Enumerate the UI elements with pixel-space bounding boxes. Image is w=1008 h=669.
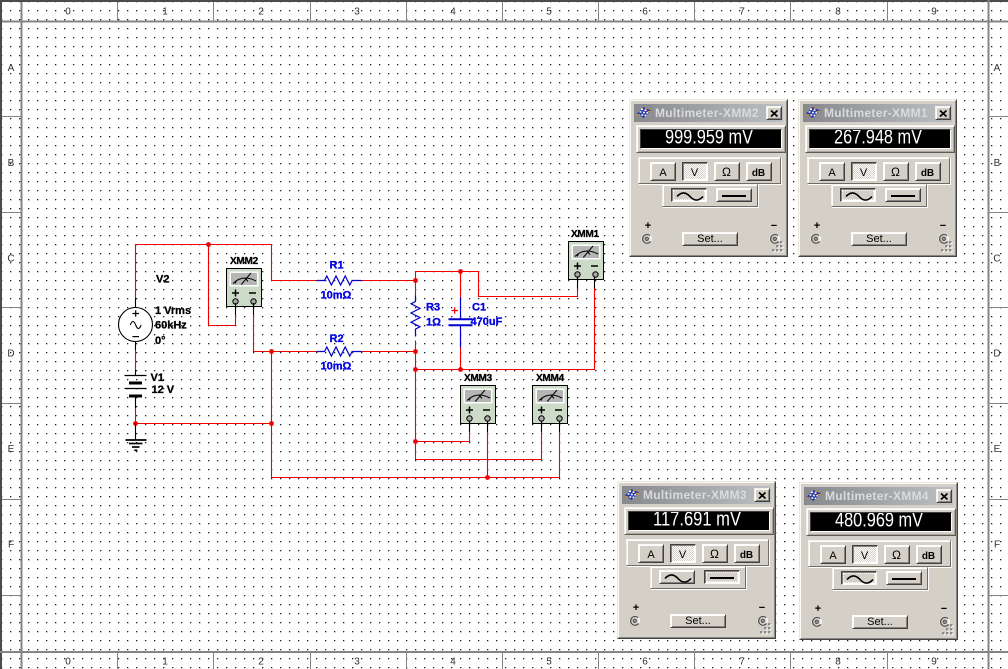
svg-text:2: 2: [258, 657, 264, 668]
multimeter window XMM2: [629, 99, 788, 257]
svg-text:1: 1: [162, 7, 168, 18]
svg-text:R1: R1: [330, 260, 344, 272]
svg-text:C: C: [7, 254, 14, 265]
wire R3 red stubs: [415, 281, 417, 352]
wire C1 top lead red part: [460, 272, 462, 298]
svg-text:R2: R2: [330, 333, 344, 345]
multimeter instrument icon XMM3: [461, 373, 496, 424]
battery V1: [125, 370, 147, 408]
svg-text:XMM3: XMM3: [464, 373, 493, 384]
capacitor C1 polarity plus: [452, 307, 459, 314]
svg-text:1Ω: 1Ω: [426, 317, 441, 329]
wire XMM3 minus down to bottom rail: [487, 432, 489, 478]
pin stubs XMM3: [470, 421, 488, 433]
resize grip: [759, 622, 772, 635]
wire R3 top junction up and right to C1 top: [416, 272, 578, 297]
wire mid rail to XMM1 minus: [416, 289, 595, 370]
wire R2 right to junction: [362, 352, 416, 371]
wire C1 bottom red: [460, 348, 462, 370]
mode buttons: [807, 157, 950, 184]
wire V1 bottom to ground junction: [135, 408, 137, 424]
svg-text:A: A: [8, 63, 15, 74]
wave buttons: [831, 184, 927, 207]
multimeter instrument icon XMM4: [533, 373, 568, 424]
svg-text:4: 4: [450, 657, 456, 668]
svg-text:XMM1: XMM1: [571, 229, 600, 240]
junction (208,244): [206, 242, 211, 247]
wave buttons: [650, 566, 746, 589]
title bar: [634, 104, 783, 122]
svg-text:470uF: 470uF: [471, 316, 503, 328]
resistor R1: [317, 276, 362, 285]
svg-text:3: 3: [354, 7, 360, 18]
multimeter window XMM4: [799, 482, 958, 640]
multimeter window XMM1: [798, 99, 957, 257]
capacitor C1: [449, 298, 473, 348]
junction (271,423): [269, 421, 274, 426]
Set button: [851, 232, 907, 246]
svg-text:480.969 mV: 480.969 mV: [835, 513, 924, 532]
svg-text:V2: V2: [156, 274, 169, 286]
svg-text:2: 2: [258, 7, 264, 18]
LCD display: [805, 125, 955, 153]
svg-text:6: 6: [642, 657, 648, 668]
svg-text:10mΩ: 10mΩ: [321, 290, 352, 302]
svg-text:1: 1: [162, 657, 168, 668]
junction (415,441): [413, 439, 418, 444]
junction (415,351): [413, 349, 418, 354]
svg-text:5: 5: [546, 657, 552, 668]
svg-text:C: C: [993, 254, 1000, 265]
svg-text:60kHz: 60kHz: [155, 320, 187, 332]
ground: [126, 424, 147, 451]
svg-text:117.691 mV: 117.691 mV: [653, 512, 742, 531]
svg-text:XMM2: XMM2: [230, 256, 259, 267]
title bar: [804, 487, 953, 505]
resistor R2: [317, 347, 362, 356]
wire down and right to XMM4 plus: [416, 432, 542, 460]
svg-text:0: 0: [65, 657, 71, 668]
Set button: [852, 615, 908, 629]
pin stubs XMM1: [578, 277, 595, 289]
wire junction down to XMM3 plus: [416, 370, 470, 442]
svg-text:XMM4: XMM4: [536, 373, 565, 384]
LCD display: [624, 507, 774, 535]
LCD display: [636, 125, 786, 153]
svg-text:C1: C1: [472, 302, 486, 314]
svg-text:8: 8: [835, 657, 841, 668]
junction (415,369): [413, 367, 418, 372]
svg-text:7: 7: [739, 657, 745, 668]
svg-text:0°: 0°: [155, 335, 166, 347]
svg-text:5: 5: [546, 7, 552, 18]
svg-text:267.948 mV: 267.948 mV: [834, 130, 923, 149]
svg-text:A: A: [994, 63, 1001, 74]
svg-text:V1: V1: [151, 372, 164, 384]
sheet outer border: [0, 0, 1008, 2]
wire XMM2 minus down to R2 line: [254, 315, 317, 352]
svg-text:8: 8: [835, 7, 841, 18]
svg-text:4: 4: [450, 7, 456, 18]
mode buttons: [808, 540, 951, 567]
ruler separator lines: [2, 21, 1008, 23]
junction (487,477): [485, 475, 490, 480]
svg-text:F: F: [8, 540, 14, 551]
svg-text:D: D: [993, 349, 1000, 360]
svg-text:12 V: 12 V: [152, 384, 175, 396]
junction (415,280): [413, 278, 418, 283]
wire ground rail: [136, 423, 272, 425]
multimeter window XMM3: [617, 481, 776, 639]
svg-text:B: B: [994, 158, 1001, 169]
svg-text:R3: R3: [426, 302, 440, 314]
wave buttons: [662, 184, 758, 207]
terminals: [642, 220, 654, 232]
svg-text:3: 3: [354, 657, 360, 668]
wire V2 bottom to V1: [135, 350, 137, 370]
svg-text:E: E: [8, 444, 15, 455]
wire junction drop to XMM2 plus: [209, 245, 236, 326]
pin stubs XMM4: [542, 421, 560, 433]
terminals: [812, 603, 824, 615]
Set button: [670, 614, 726, 628]
svg-text:E: E: [994, 444, 1001, 455]
wire left net: R2 left down to ground rail and bottom rail: [272, 352, 560, 478]
svg-text:F: F: [994, 540, 1000, 551]
terminals: [811, 220, 823, 232]
resize grip: [771, 240, 784, 253]
mode buttons: [626, 539, 769, 566]
multimeter instrument icon XMM1: [569, 229, 604, 280]
svg-text:B: B: [8, 158, 15, 169]
svg-text:6: 6: [642, 7, 648, 18]
svg-text:10mΩ: 10mΩ: [321, 361, 352, 373]
svg-text:D: D: [7, 349, 14, 360]
junction dots: [133, 242, 490, 480]
resize grip: [940, 240, 953, 253]
Set button: [682, 232, 738, 246]
svg-text:1 Vrms: 1 Vrms: [155, 305, 191, 317]
junction (460,271): [458, 269, 463, 274]
title bar: [803, 104, 952, 122]
title bar: [622, 486, 771, 504]
junction (271,351): [269, 349, 274, 354]
LCD display: [806, 508, 956, 536]
junction (460,369): [458, 367, 463, 372]
junction (135,423): [133, 421, 138, 426]
wire V2 top to R1 corner: [136, 245, 317, 299]
svg-text:999.959 mV: 999.959 mV: [665, 130, 754, 149]
svg-text:7: 7: [739, 7, 745, 18]
svg-text:9: 9: [931, 7, 937, 18]
pin stubs XMM2: [236, 303, 254, 315]
resize grip: [941, 623, 954, 636]
AC source V2: [119, 298, 153, 350]
wave buttons: [832, 567, 928, 590]
mode buttons: [638, 157, 781, 184]
svg-text:9: 9: [931, 657, 937, 668]
wire R1 right to R3 top junction: [362, 280, 416, 282]
resistor R3: [411, 296, 420, 337]
multimeter instrument icon XMM2: [227, 256, 262, 307]
svg-text:0: 0: [65, 7, 71, 18]
terminals: [630, 602, 642, 614]
